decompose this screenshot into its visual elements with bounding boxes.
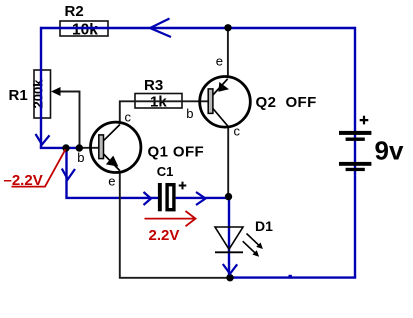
current arrow above bottom node (223, 264, 237, 274)
voltage callout line (12, 149, 66, 186)
battery B1 9v (339, 116, 371, 171)
current arrow below R1 (36, 134, 50, 145)
wire Q1 base lead (80, 147, 99, 149)
transistor Q2 (200, 77, 251, 128)
wire right rail blue (354, 27, 356, 278)
wire C1 right to node B (176, 197, 229, 199)
wire joint tick bottom rail (289, 275, 292, 277)
wire node B down through D1 to bottom node (228, 197, 230, 278)
svg-text:D1: D1 (255, 218, 273, 234)
svg-text:e: e (108, 173, 115, 188)
node bottom junction dot (226, 274, 233, 281)
node top junction dot (224, 24, 231, 31)
wire left rail blue through R1 (40, 27, 42, 148)
wire bottom rail blue (230, 276, 356, 278)
wire top rail blue (41, 27, 355, 29)
wire Q2 emitter up to top rail (227, 28, 229, 77)
voltage arrow under C1 (145, 211, 196, 226)
svg-text:2.2V: 2.2V (149, 227, 180, 244)
svg-text:R2: R2 (65, 3, 84, 20)
current arrow before C1 (144, 192, 152, 205)
svg-text:e: e (216, 54, 223, 69)
capacitor C1 (158, 182, 186, 212)
node A junction dot (62, 144, 69, 151)
svg-text:R3: R3 (144, 77, 163, 94)
svg-text:b: b (77, 150, 84, 165)
svg-text:10k: 10k (72, 22, 98, 39)
svg-text:b: b (186, 106, 193, 121)
svg-text:c: c (234, 124, 241, 139)
node B junction dot (225, 193, 232, 200)
transistor Q1 (91, 122, 141, 172)
wire R1 wiper black (53, 92, 80, 148)
svg-text:c: c (125, 110, 132, 125)
wire Q1 collector to R3 (120, 101, 182, 124)
wire Q2 collector down to node B (227, 127, 229, 197)
wire R3 to Q2 base (182, 100, 208, 102)
resistor R2 box (60, 21, 108, 39)
resistor R3 box (135, 94, 182, 111)
wire from node A down to C1 row (65, 148, 158, 198)
diode D1 (LED) (215, 227, 263, 257)
wiper arrowhead (51, 87, 61, 96)
svg-text:Q2 OFF: Q2 OFF (256, 94, 317, 111)
current arrow after C1 (196, 192, 206, 205)
wire Q1 emitter down and bottom black (120, 171, 230, 278)
svg-text:C1: C1 (157, 164, 174, 179)
resistor R1 box (31, 70, 51, 118)
current arrow top rail (150, 19, 171, 38)
node wiper junction dot (76, 144, 83, 151)
svg-text:R1: R1 (9, 87, 28, 104)
svg-text:200k: 200k (31, 79, 46, 109)
current arrow below node A (62, 169, 75, 180)
wire left rail bottom horizontal (40, 147, 80, 149)
svg-text:Q1 OFF: Q1 OFF (148, 143, 205, 160)
svg-text:9v: 9v (375, 136, 404, 166)
